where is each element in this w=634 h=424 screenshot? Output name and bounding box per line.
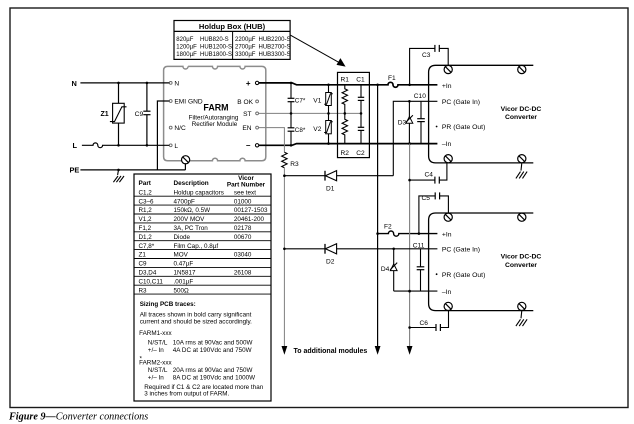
wire EMI GND to PE <box>157 101 169 170</box>
fuse F2 and wire to converter2 +In <box>378 231 438 236</box>
U1 screw bottom-left <box>444 155 452 163</box>
resistor R2 <box>342 113 347 143</box>
svg-text:1N5817: 1N5817 <box>174 270 197 277</box>
svg-text:0.47µF: 0.47µF <box>174 261 194 268</box>
wire - bus (FARM - to converter1 -In) <box>259 144 438 146</box>
FARM pin EN <box>242 125 258 132</box>
wire EN line down (EN to R3 to diodes to modules arrow) <box>259 128 285 153</box>
capacitor C7 <box>288 83 306 114</box>
junction + bus / V1 <box>327 84 330 87</box>
junction midpoint / C1 C2 <box>360 112 363 115</box>
svg-text:Vicor DC-DC: Vicor DC-DC <box>501 254 542 261</box>
U1 screw bottom-right <box>518 155 526 163</box>
svg-text:N/ST/L: N/ST/L <box>148 340 168 347</box>
svg-text:Holdup capacitors: Holdup capacitors <box>174 189 224 196</box>
junction midpoint / C7 C8 <box>290 112 293 115</box>
wire + bus (FARM + to F1 to converter1 +In) <box>259 82 438 87</box>
svg-text:V1,2: V1,2 <box>139 216 152 223</box>
svg-text:26108: 26108 <box>234 270 252 277</box>
FARM chassis screw <box>182 156 190 164</box>
svg-text:C7*: C7* <box>295 98 306 105</box>
U1 label <box>501 106 542 121</box>
ground (U1 baseplate) <box>516 163 527 179</box>
junction EN node / D1 <box>283 174 286 177</box>
ground (PE) <box>113 170 124 182</box>
junction - bus / C8 <box>290 144 293 147</box>
svg-text:HUB1200-S: HUB1200-S <box>200 45 232 51</box>
svg-text:3 inches from output of FARM.: 3 inches from output of FARM. <box>144 391 229 398</box>
svg-text:FARM1-xxx: FARM1-xxx <box>139 330 172 337</box>
U2 pin PR (Gate Out) <box>436 272 486 279</box>
svg-text:C11: C11 <box>413 243 425 250</box>
parts table box <box>134 174 271 401</box>
svg-text:Vicor DC-DC: Vicor DC-DC <box>501 106 542 113</box>
wire D1 riser to PC1 <box>393 101 437 175</box>
varistor Z1 <box>101 82 127 147</box>
arrow from HUB table to holdup box <box>291 35 346 66</box>
svg-text:1200µF: 1200µF <box>176 45 197 51</box>
svg-text:3300µF: 3300µF <box>235 52 256 58</box>
svg-text:Rectifier Module: Rectifier Module <box>192 121 238 128</box>
svg-text:Sizing PCB traces:: Sizing PCB traces: <box>140 301 196 308</box>
svg-text:2700µF: 2700µF <box>235 45 256 51</box>
svg-text:00670: 00670 <box>234 234 252 241</box>
svg-text:Converter: Converter <box>505 262 537 269</box>
svg-text:C6: C6 <box>420 320 429 327</box>
svg-text:+In: +In <box>442 83 452 90</box>
U2 label <box>501 254 542 269</box>
svg-text:Holdup Box (HUB): Holdup Box (HUB) <box>199 22 266 31</box>
FARM pin N/C <box>169 125 186 132</box>
arrow to additional modules (EN) <box>282 346 288 355</box>
capacitor C2 <box>358 113 364 143</box>
svg-text:F2: F2 <box>384 223 392 230</box>
junction +feed / F2 <box>376 232 379 235</box>
U2 screw bottom-left <box>444 302 452 310</box>
svg-text:L: L <box>73 141 78 150</box>
diode D3 <box>398 101 413 143</box>
svg-text:R2: R2 <box>341 150 350 157</box>
svg-text:01000: 01000 <box>234 198 252 205</box>
capacitor C4 <box>408 163 447 184</box>
U2 screw top-left <box>444 213 452 221</box>
svg-text:V1: V1 <box>313 98 321 105</box>
capacitor C6 <box>408 311 448 331</box>
svg-text:00127-1503: 00127-1503 <box>234 207 268 214</box>
svg-text:EMI GND: EMI GND <box>174 99 202 106</box>
capacitor C9 <box>135 82 151 147</box>
svg-text:–: – <box>246 141 251 150</box>
svg-text:8A DC at 190Vdc and 1000W: 8A DC at 190Vdc and 1000W <box>173 374 255 381</box>
svg-text:1800µF: 1800µF <box>176 52 197 58</box>
capacitor C10 <box>414 93 426 144</box>
capacitor C5 <box>419 192 449 233</box>
svg-text:MOV: MOV <box>174 252 189 259</box>
svg-text:EN: EN <box>242 125 251 132</box>
svg-text:B OK: B OK <box>237 99 253 106</box>
resistor R1 <box>342 85 347 114</box>
svg-text:R1: R1 <box>341 77 350 84</box>
wire R3 to D1/D2 node and arrow <box>283 168 285 347</box>
FARM pin L <box>169 143 178 150</box>
junction -In2 / interconnect <box>408 290 411 293</box>
svg-text:Converter: Converter <box>505 114 537 121</box>
wire -In interconnect down to modules arrow <box>409 144 411 347</box>
svg-text:C4: C4 <box>425 171 434 178</box>
svg-text:–In: –In <box>442 141 452 148</box>
svg-text:C10,C11: C10,C11 <box>139 278 164 285</box>
svg-text:Part Number: Part Number <box>227 181 266 188</box>
svg-text:PE: PE <box>70 166 80 175</box>
svg-text:10A rms at 90Vac and 500W: 10A rms at 90Vac and 500W <box>173 340 253 347</box>
svg-text:PC (Gate In): PC (Gate In) <box>442 246 480 253</box>
wire ST to holdup midpoint <box>259 112 361 114</box>
svg-text:ST: ST <box>243 111 251 118</box>
parts table row separators <box>134 196 271 294</box>
wire +feed down to F2 and modules arrow <box>377 85 379 347</box>
junction + bus / F2 feed <box>376 84 379 87</box>
FARM pin ST <box>243 111 258 118</box>
svg-text:R3: R3 <box>139 287 148 294</box>
resistor R3 <box>282 152 287 168</box>
ground (U2 baseplate) <box>516 311 527 327</box>
svg-text:D3: D3 <box>398 119 407 126</box>
arrow to additional modules (-) <box>407 346 413 355</box>
svg-text:N: N <box>174 80 179 87</box>
diode D2 <box>284 244 437 266</box>
svg-text:current and should be sized ac: current and should be sized accordingly. <box>140 318 252 325</box>
FARM pin + <box>246 79 259 88</box>
svg-text:C3: C3 <box>422 52 431 59</box>
svg-text:Part: Part <box>139 180 152 187</box>
U2 screw bottom-right <box>518 302 526 310</box>
svg-text:Z1: Z1 <box>101 111 109 118</box>
svg-text:+/– In: +/– In <box>148 374 164 381</box>
svg-text:R1,2: R1,2 <box>139 207 153 214</box>
svg-text:820µF: 820µF <box>176 37 193 43</box>
capacitor C3 <box>410 45 449 85</box>
svg-text:Z1: Z1 <box>139 252 147 259</box>
capacitor C8 <box>288 113 306 145</box>
svg-text:.001µF: .001µF <box>174 278 194 285</box>
Holdup Box (HUB) table <box>174 21 290 60</box>
diode D1 <box>284 171 393 193</box>
svg-text:HUB2200-S: HUB2200-S <box>259 37 291 43</box>
svg-text:FARM: FARM <box>203 102 228 112</box>
svg-text:200V MOV: 200V MOV <box>174 216 206 223</box>
svg-text:C3–6: C3–6 <box>139 198 155 205</box>
svg-text:2200µF: 2200µF <box>235 37 256 43</box>
junction - bus / interconnect <box>408 142 411 145</box>
svg-text:R3: R3 <box>290 161 299 168</box>
FARM pin N <box>169 80 179 87</box>
svg-text:Figure 9—Converter connections: Figure 9—Converter connections <box>8 412 148 423</box>
U1 screw top-left <box>444 65 452 73</box>
svg-text:F1: F1 <box>388 75 396 82</box>
svg-text:Diode: Diode <box>174 234 191 241</box>
junction PC2 / D4 <box>392 248 395 251</box>
diode D4 <box>381 249 397 291</box>
svg-text:+: + <box>246 79 251 88</box>
junction + bus / C7 <box>290 82 293 85</box>
svg-text:To additional modules: To additional modules <box>294 348 368 355</box>
svg-text:HUB2700-S: HUB2700-S <box>259 45 291 51</box>
U2 screw top-right <box>518 213 526 221</box>
junction +In2 / C5 riser <box>418 232 421 235</box>
junction midpoint / R1 R2 <box>344 112 347 115</box>
svg-text:D3,D4: D3,D4 <box>139 270 157 277</box>
svg-text:see text: see text <box>234 189 256 196</box>
U1 pin PR (Gate Out) <box>436 124 486 131</box>
varistor V2 <box>313 113 333 143</box>
varistor V1 <box>313 85 333 114</box>
FARM labels <box>189 102 239 128</box>
svg-text:N/ST/L: N/ST/L <box>148 367 168 374</box>
svg-text:C8*: C8* <box>295 127 306 134</box>
junction PE/ground <box>117 169 120 172</box>
junction - bus / V2 <box>327 142 330 145</box>
svg-text:D2: D2 <box>326 258 335 265</box>
svg-text:–In: –In <box>442 289 452 296</box>
svg-text:C1: C1 <box>356 77 365 84</box>
svg-text:C9: C9 <box>135 111 144 118</box>
svg-text:Film Cap., 0.8µf: Film Cap., 0.8µf <box>174 243 219 250</box>
FARM pin EMI GND <box>169 99 203 106</box>
svg-text:20A rms at 90Vac and 750W: 20A rms at 90Vac and 750W <box>173 367 253 374</box>
FARM pin B OK <box>237 99 258 106</box>
svg-text:PC (Gate In): PC (Gate In) <box>442 99 480 106</box>
svg-text:L: L <box>174 143 178 150</box>
FARM pin - <box>246 141 259 150</box>
svg-text:500Ω: 500Ω <box>174 287 190 294</box>
converter U2 (Vicor DC-DC) outline <box>429 213 534 311</box>
svg-text:C7,8*: C7,8* <box>139 243 155 250</box>
svg-text:V2: V2 <box>313 126 321 133</box>
svg-text:+In: +In <box>442 231 452 238</box>
FARM module outline <box>164 66 266 160</box>
svg-text:4A DC at 190Vdc and 750W: 4A DC at 190Vdc and 750W <box>173 347 252 354</box>
converter U1 (Vicor DC-DC) outline <box>429 65 534 163</box>
svg-text:150kΩ, 0.5W: 150kΩ, 0.5W <box>174 207 211 214</box>
svg-text:3A, PC Tron: 3A, PC Tron <box>174 225 209 232</box>
svg-text:N: N <box>72 79 77 88</box>
svg-text:+/– In: +/– In <box>148 347 164 354</box>
parts table header <box>139 175 266 189</box>
svg-text:D1: D1 <box>326 185 335 192</box>
svg-text:C10: C10 <box>414 93 426 100</box>
holdup box outline (R1 C1 R2 C2) <box>338 72 370 157</box>
svg-text:C2: C2 <box>356 150 365 157</box>
junction + bus / C3 riser <box>408 84 411 87</box>
parts table rows <box>139 189 269 294</box>
svg-text:Description: Description <box>174 180 209 187</box>
svg-text:N/C: N/C <box>174 125 186 132</box>
capacitor C1 <box>358 85 364 114</box>
svg-text:02178: 02178 <box>234 225 252 232</box>
junction PC1 / D3 <box>408 100 411 103</box>
svg-text:C1,2: C1,2 <box>139 189 153 196</box>
capacitor C11 <box>413 243 425 292</box>
svg-text:D4: D4 <box>381 266 390 273</box>
svg-text:C5: C5 <box>422 195 431 202</box>
arrow to additional modules (+) <box>375 346 381 355</box>
svg-text:PR (Gate Out): PR (Gate Out) <box>442 272 485 279</box>
svg-text:FARM2-xxx: FARM2-xxx <box>139 360 172 367</box>
wire L input with line fuse <box>82 143 169 148</box>
wire PE to FARM screw <box>184 163 186 170</box>
svg-text:C9: C9 <box>139 261 148 268</box>
svg-text:HUB3300-S: HUB3300-S <box>259 52 291 58</box>
svg-text:PR (Gate Out): PR (Gate Out) <box>442 124 485 131</box>
wire PE <box>80 169 185 171</box>
wire -In2 <box>394 290 438 292</box>
svg-text:20461-200: 20461-200 <box>234 216 265 223</box>
svg-text:F1,2: F1,2 <box>139 225 152 232</box>
svg-text:4700pF: 4700pF <box>174 198 196 205</box>
junction midpoint / V1 V2 <box>327 112 330 115</box>
sizing PCB traces note <box>139 301 264 398</box>
svg-text:D1,2: D1,2 <box>139 234 153 241</box>
svg-text:HUB1800-S: HUB1800-S <box>200 52 232 58</box>
wire N input to FARM N <box>80 82 169 84</box>
svg-text:HUB820-S: HUB820-S <box>200 37 229 43</box>
junction EN node / D2 <box>283 248 286 251</box>
U1 screw top-right <box>518 65 526 73</box>
svg-text:03040: 03040 <box>234 252 252 259</box>
